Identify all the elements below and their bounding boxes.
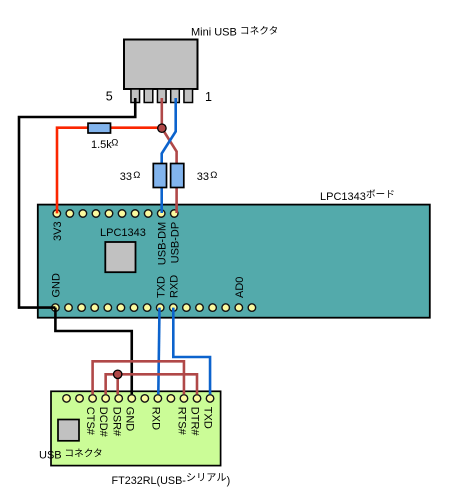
Mini USB pin 2 (171, 89, 180, 103)
resistor R3 33ohm right (171, 164, 184, 188)
USB connector square on FT232 (58, 420, 79, 441)
svg-text:DSR#: DSR# (110, 407, 122, 437)
svg-text:3V3: 3V3 (52, 221, 64, 241)
svg-text:DTR#: DTR# (189, 407, 201, 437)
svg-text:Ω: Ω (111, 138, 118, 149)
junction dot (red) (158, 124, 166, 132)
op chip U1 LPC1343 (105, 242, 135, 272)
svg-text:RXD: RXD (149, 407, 161, 430)
wire blue: mini USB pin4 to left 33ohm (162, 98, 176, 165)
wire dark red: junction to right 33ohm to USB-DP (162, 128, 177, 165)
svg-text:1: 1 (205, 90, 212, 104)
svg-text:Ω: Ω (133, 170, 140, 181)
FT232RL board (51, 391, 221, 465)
svg-text:USB コネクタ: USB コネクタ (39, 448, 103, 462)
svg-text:GND: GND (123, 407, 135, 432)
LPC top pin row (53, 210, 178, 218)
FT232 pin row (63, 395, 214, 403)
svg-text:USB-DM: USB-DM (157, 222, 169, 265)
Mini USB pin 4 (144, 89, 153, 103)
svg-text:TXD: TXD (202, 407, 214, 429)
svg-text:RTS#: RTS# (176, 407, 188, 436)
wire blue: LPC TXD to FT232 RXD (158, 308, 159, 395)
wire blue: left 33ohm bottom to USB-DM pin (160, 187, 163, 214)
svg-text:RXD: RXD (169, 275, 181, 298)
svg-text:USB-DP: USB-DP (170, 222, 182, 264)
wire dark red: FT232 DCD# to DTR# (106, 374, 197, 394)
svg-text:Ω: Ω (210, 170, 217, 181)
LPC bottom pin row (52, 304, 256, 312)
svg-text:GND: GND (51, 273, 63, 298)
wire black: mini USB pin5 to LPC GND (19, 98, 135, 308)
wire red: 1.5k net from 3V3 to junction (57, 128, 162, 214)
wire blue: LPC RXD to FT232 TXD (173, 308, 210, 395)
wire dark red: FT232 CTS# to RTS# (93, 361, 184, 394)
svg-text:1.5k: 1.5k (91, 139, 112, 151)
svg-text:DCD#: DCD# (97, 407, 109, 438)
resistor R2 33ohm left (153, 164, 166, 188)
svg-text:CTS#: CTS# (84, 407, 96, 436)
wire black: LPC GND to FT232 GND (55, 308, 131, 395)
svg-text:33: 33 (120, 171, 132, 183)
svg-text:LPC1343ボード: LPC1343ボード (320, 188, 395, 203)
svg-text:LPC1343: LPC1343 (100, 227, 146, 239)
Mini USB connector body (124, 40, 198, 90)
resistor R1 1.5k (88, 123, 111, 133)
Mini USB pin 1 (rightmost) (184, 89, 193, 103)
svg-text:Mini USB コネクタ: Mini USB コネクタ (191, 25, 278, 39)
junction dot (red) on FT232 net (114, 370, 122, 378)
wire dark red: junction drop to DSR# (116, 374, 119, 394)
wire dark red: right 33ohm bottom to USB-DP pin (175, 187, 178, 214)
Mini USB pin 5 (leftmost) (131, 89, 140, 103)
wire dark red: mini USB pin3 down to junction (161, 98, 164, 126)
svg-text:AD0: AD0 (234, 277, 246, 298)
svg-text:33: 33 (197, 171, 209, 183)
svg-text:5: 5 (106, 90, 113, 104)
svg-text:FT232RL(USB-シリアル): FT232RL(USB-シリアル) (112, 473, 231, 487)
LPC1343 board (38, 205, 430, 318)
Mini USB pin 3 (157, 89, 166, 103)
svg-text:TXD: TXD (156, 276, 168, 298)
